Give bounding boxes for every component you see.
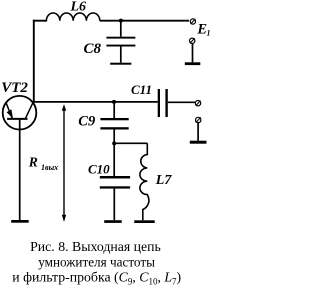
terminal to ground (top right): [190, 38, 195, 43]
inductor L7: [140, 143, 149, 220]
capacitor C9: [100, 102, 128, 143]
ground bar under C8: [110, 63, 131, 65]
junction dot at C8 tap: [119, 19, 123, 23]
Rvyh measuring arrow (double headed): [62, 104, 66, 222]
base lead down: [19, 120, 21, 221]
wire: junction to L7: [114, 142, 147, 144]
inductor L6: [46, 13, 99, 21]
ground under transistor base: [11, 220, 29, 223]
terminal to ground (bottom right): [196, 117, 201, 122]
ground (top right): [185, 62, 201, 65]
svg-text:R: R: [28, 154, 38, 169]
capacitor C8: [106, 21, 135, 63]
svg-text:C8: C8: [84, 41, 102, 57]
svg-text:и фильтр-пробка (С9, С10, L7): и фильтр-пробка (С9, С10, L7): [12, 269, 181, 286]
svg-text:VT2: VT2: [1, 80, 28, 96]
svg-text:умножителя частоты: умножителя частоты: [38, 255, 155, 270]
capacitor C10: [100, 143, 130, 220]
svg-text:C11: C11: [131, 82, 152, 97]
svg-text:C10: C10: [88, 161, 110, 176]
wire: collector node horizontal to C11: [34, 101, 158, 103]
junction dot at L7 tap: [112, 141, 116, 145]
svg-text:1: 1: [207, 28, 211, 37]
svg-text:L7: L7: [155, 173, 173, 188]
svg-text:L6: L6: [70, 0, 87, 15]
svg-text:1вых: 1вых: [41, 163, 58, 172]
ground under L7: [134, 220, 154, 223]
ground under C10: [104, 220, 122, 223]
transistor VT2: [3, 96, 37, 220]
junction dot at C9 tap: [112, 100, 116, 104]
wire: vertical from top-left corner down to collector node: [33, 20, 35, 102]
ground (bottom right): [190, 141, 207, 144]
svg-text:C9: C9: [78, 113, 95, 129]
collector diagonal: [26, 102, 34, 119]
svg-text:Рис. 8. Выходная цепь: Рис. 8. Выходная цепь: [30, 239, 161, 254]
wire: terminal to ground bar (bottom right): [197, 123, 199, 141]
emitter diagonal with arrow: [6, 102, 12, 118]
terminal E1 (circle with slash): [190, 19, 195, 24]
wire: L6 to terminal E1: [100, 20, 189, 22]
capacitor C11: [158, 89, 196, 117]
base bar: [7, 118, 27, 120]
terminal out (right of C11): [195, 101, 200, 106]
wire: top-left horizontal to L6: [33, 20, 47, 22]
wire: terminal to ground bar: [192, 43, 194, 62]
